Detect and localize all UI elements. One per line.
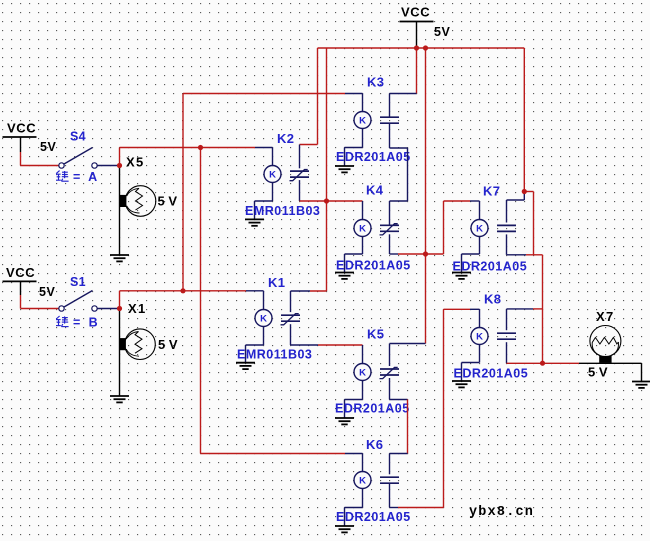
- wire top 5V bus: [318, 47, 525, 49]
- svg-text:5V: 5V: [39, 285, 55, 299]
- wire K8 contact top lead: [507, 309, 534, 330]
- ground right of X7: [632, 382, 650, 388]
- wire K6 coil bottom to ground: [345, 489, 363, 526]
- relay contact K1: [281, 314, 301, 325]
- wire bus right end down to K7: [523, 48, 525, 192]
- wire K1 contact top to x=326 bus: [310, 290, 327, 292]
- wire K3 coil bottom to ground: [345, 129, 363, 166]
- junction node X5: [117, 163, 122, 168]
- switch S1: [59, 291, 97, 312]
- wire VCC to S4 red part: [21, 152, 59, 166]
- svg-text:EDR201A05: EDR201A05: [453, 259, 528, 273]
- ground K3: [335, 166, 354, 172]
- wire K7 coil lead: [470, 201, 480, 219]
- wire K6 coil lead: [345, 454, 363, 472]
- wire K2 coil lead left: [255, 148, 273, 166]
- wire K7 node to right riser: [524, 192, 533, 255]
- ground K7: [452, 273, 471, 279]
- svg-text:EDR201A05: EDR201A05: [336, 259, 411, 273]
- wire node X1 up: [119, 291, 121, 309]
- svg-text:5 V: 5 V: [158, 337, 178, 352]
- svg-text:K8: K8: [484, 292, 501, 307]
- wire K8 contact top feed: [533, 308, 543, 310]
- wire K1 coil lead left: [246, 291, 264, 310]
- wire under X7 to ground: [579, 363, 642, 381]
- svg-text:K7: K7: [483, 184, 500, 199]
- label jian(key) = B glyph: [56, 316, 69, 327]
- svg-text:5 V: 5 V: [588, 365, 608, 380]
- wire X5 down to ground: [119, 166, 121, 256]
- wire bus drop x=425 to K5 contact: [425, 48, 427, 344]
- wire K7 coil bottom to ground: [462, 237, 480, 273]
- switch S4: [59, 148, 97, 169]
- relay coil K7: [471, 220, 488, 237]
- relay coil K8: [471, 328, 488, 345]
- svg-text:VCC: VCC: [401, 5, 430, 20]
- relay contact K6: [380, 477, 399, 483]
- svg-text:K4: K4: [366, 183, 384, 198]
- svg-text:ybx8.cn: ybx8.cn: [469, 505, 534, 520]
- relay contact K5: [380, 367, 400, 378]
- junction X7 row: [540, 361, 545, 366]
- svg-text:K: K: [260, 314, 267, 325]
- wire K5 contact top lead: [390, 344, 426, 367]
- relay coil K5: [354, 364, 371, 381]
- wire K6 contact top lead: [390, 454, 408, 475]
- junction node X1: [117, 306, 122, 311]
- relay contact K7: [497, 225, 516, 231]
- label jian(key) = A glyph: [56, 171, 69, 182]
- ground K4: [335, 273, 354, 279]
- wire node A feed down x=200: [200, 148, 202, 454]
- junction K4 row x=425: [423, 251, 428, 256]
- wire VCC drop to K3 contact: [416, 48, 418, 94]
- svg-text:X5: X5: [126, 155, 145, 170]
- svg-text:K: K: [359, 368, 366, 379]
- wire K7 contact top lead: [507, 192, 525, 223]
- junction K2 bottom x=326: [324, 198, 329, 203]
- relay coil K2: [264, 166, 281, 183]
- svg-text:5V: 5V: [434, 25, 450, 39]
- wire K2 contact bottom lead: [299, 180, 301, 201]
- wire middle vertical bus x=326: [326, 48, 328, 291]
- wire K2 contact row to K4 coil: [300, 200, 363, 202]
- wire node X5 up: [119, 148, 121, 166]
- junction x=200 on X5 row: [198, 145, 203, 150]
- wire K1 contact row to K5 coil: [318, 344, 363, 346]
- ground K8: [452, 381, 471, 387]
- svg-text:EDR201A05: EDR201A05: [335, 402, 410, 416]
- wire net A row to K6 coil: [201, 453, 346, 455]
- wire K4 coil lead: [362, 201, 364, 219]
- svg-text:EDR201A05: EDR201A05: [336, 150, 411, 164]
- svg-text:EDR201A05: EDR201A05: [454, 367, 529, 381]
- junction x=183 on X1 row: [180, 288, 185, 293]
- wire K6 contact bottom lead: [390, 483, 399, 507]
- wire K8 contact bottom lead: [506, 342, 508, 363]
- wire K7 bottom jog to x=542: [526, 255, 543, 363]
- wire K1 coil bottom to ground: [246, 327, 264, 363]
- svg-text:S4: S4: [70, 130, 86, 144]
- svg-text:K1: K1: [268, 275, 285, 290]
- power VCC (top center): [400, 5, 434, 22]
- wire K8 coil lead: [470, 309, 480, 327]
- svg-text:K5: K5: [367, 327, 384, 342]
- wire K5 coil bottom to ground: [345, 381, 363, 418]
- wire K5 contact to K6 contact riser: [407, 400, 409, 454]
- relay contact K8: [497, 333, 516, 339]
- wire K6 contact row to K8 riser: [398, 309, 470, 507]
- junction K7 node: [522, 189, 527, 194]
- ground K1: [236, 363, 255, 369]
- lamp X5: [120, 186, 156, 217]
- wire VCC2 to S1 red part: [21, 295, 59, 309]
- wire K4 coil bottom to ground: [345, 237, 363, 273]
- svg-text:S1: S1: [70, 275, 86, 289]
- svg-text:K: K: [359, 116, 366, 127]
- svg-text:K2: K2: [277, 131, 294, 146]
- svg-text:K3: K3: [367, 75, 384, 90]
- wire S4 to node X5: [97, 165, 119, 167]
- wire x=183 vertical (net B to K3 coil): [183, 94, 345, 291]
- wire S1 to node X1: [97, 308, 119, 310]
- relay contact K2: [290, 170, 310, 181]
- ground below X5: [110, 255, 129, 261]
- svg-text:K: K: [359, 476, 366, 487]
- power VCC (left lower): [3, 265, 37, 281]
- junction bus x=425 drop: [423, 45, 428, 50]
- relay coil K3: [354, 112, 371, 129]
- ground K6: [335, 526, 354, 532]
- relay coil K4: [354, 220, 371, 237]
- ground K5: [335, 418, 354, 424]
- wire K3 coil lead: [345, 94, 363, 112]
- svg-text:K6: K6: [366, 437, 383, 452]
- ground K2: [245, 219, 264, 225]
- svg-text:K: K: [359, 224, 366, 235]
- wire K1 contact top lead: [291, 291, 311, 312]
- svg-text:EMR011B03: EMR011B03: [237, 348, 312, 362]
- svg-text:X1: X1: [128, 301, 147, 316]
- wire VCC2 to S1: [20, 281, 22, 295]
- wire K5 contact bottom lead: [390, 378, 408, 400]
- svg-text:K: K: [476, 224, 483, 235]
- wire K5 coil lead: [362, 345, 364, 363]
- lamp X1: [119, 329, 155, 360]
- relay contact K3: [380, 117, 399, 123]
- svg-text:EDR201A05: EDR201A05: [336, 510, 411, 524]
- junction VCC stem on bus: [414, 45, 419, 50]
- wire bus left end down to K2 contact: [300, 48, 318, 145]
- wire VCC stem (top center): [416, 22, 418, 49]
- relay coil K6: [354, 472, 371, 489]
- lamp X7: [590, 326, 621, 363]
- relay contact K4: [380, 224, 400, 235]
- svg-text:VCC: VCC: [6, 265, 35, 280]
- wire X1 down to ground: [119, 309, 121, 397]
- svg-text:K: K: [476, 332, 483, 343]
- svg-text:5V: 5V: [40, 140, 56, 154]
- wire K3 contact bottom to K4 contact top: [390, 123, 408, 225]
- svg-text:K: K: [269, 170, 276, 181]
- svg-text:5 V: 5 V: [158, 194, 178, 209]
- wire K1 contact bottom lead: [291, 324, 319, 345]
- wire K2 contact top lead: [299, 145, 301, 169]
- svg-text:EMR011B03: EMR011B03: [245, 204, 320, 218]
- svg-text:VCC: VCC: [7, 121, 36, 136]
- wire K3 contact top lead: [390, 94, 417, 118]
- svg-text:= B: = B: [73, 315, 100, 329]
- wire K2 coil bottom to ground: [255, 183, 273, 220]
- wire K7 contact bottom lead: [507, 234, 527, 254]
- wire K8 coil bottom to ground: [462, 345, 480, 381]
- svg-text:= A: = A: [73, 170, 100, 184]
- relay coil K1: [255, 310, 272, 327]
- wire VCC to S4: [20, 137, 22, 152]
- wire node X5 to K2 coil row: [120, 147, 256, 149]
- svg-text:X7: X7: [596, 309, 615, 324]
- power VCC (left upper): [3, 121, 37, 138]
- wire K4 contact bottom lead: [390, 234, 399, 254]
- wire K4 contact row to K7 coil riser: [398, 201, 470, 254]
- wire node X1 to K1 row: [120, 290, 247, 292]
- wire K8 contact to X7: [507, 362, 580, 364]
- ground below X1: [110, 396, 129, 402]
